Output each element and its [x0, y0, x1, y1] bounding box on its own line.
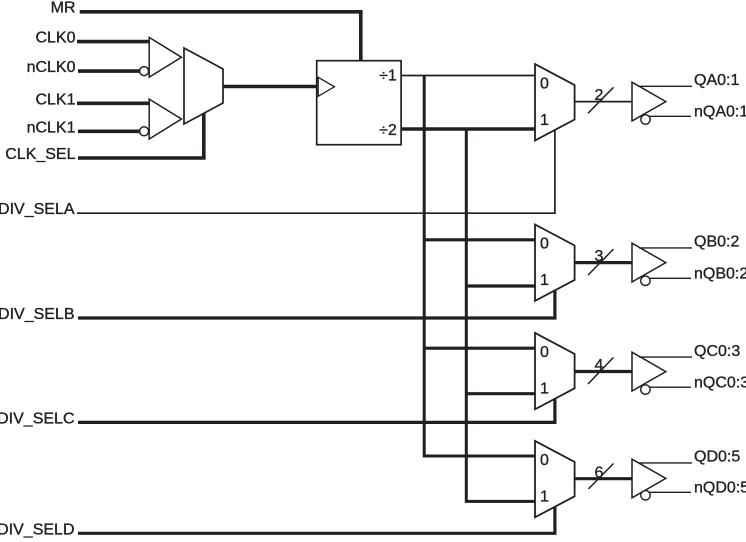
mux C	[535, 333, 575, 409]
input clock mux M0	[184, 48, 223, 124]
wire mux M0 output to divider	[223, 85, 317, 89]
svg-text:4: 4	[595, 357, 604, 374]
svg-text:0: 0	[540, 344, 549, 361]
svg-text:QB0:2: QB0:2	[694, 234, 739, 251]
wire CLK1	[77, 102, 149, 106]
inversion bubble buffer C	[641, 385, 650, 394]
svg-text:6: 6	[595, 464, 604, 481]
divider block U3	[317, 61, 401, 145]
svg-text:1: 1	[540, 112, 549, 129]
svg-text:÷1: ÷1	[379, 67, 397, 84]
wire vertical bus /2	[466, 129, 535, 501]
svg-text:QC0:3: QC0:3	[694, 343, 740, 360]
svg-text:CLK0: CLK0	[35, 30, 75, 47]
inversion bubble buffer D	[641, 491, 650, 500]
divider clock input triangle	[318, 77, 334, 96]
svg-text:nQB0:2: nQB0:2	[694, 266, 746, 283]
inversion bubble input buffer U1	[140, 67, 149, 76]
bus slash channel C	[588, 357, 614, 384]
mux D	[535, 441, 575, 517]
svg-text:2: 2	[595, 87, 604, 104]
wire DIV_SELA	[77, 212, 556, 214]
output buffer C triangle	[632, 352, 666, 391]
wire DIV_SELD	[78, 532, 557, 535]
svg-text:CLK_SEL: CLK_SEL	[5, 146, 75, 163]
wire nQA output	[649, 115, 691, 117]
wire bus /1 to mux C input 0	[424, 347, 535, 350]
svg-text:0: 0	[540, 75, 549, 92]
bus slash channel B	[588, 249, 614, 275]
svg-text:CLK1: CLK1	[35, 91, 75, 108]
svg-text:1: 1	[540, 381, 549, 398]
inversion bubble buffer B	[641, 276, 650, 285]
wire divider /1 output to mux A input 0	[401, 75, 535, 77]
wire mux C output to buffer C	[575, 370, 632, 373]
svg-text:DIV_SELC: DIV_SELC	[0, 410, 75, 427]
bus slash channel A	[588, 87, 614, 113]
mux B	[535, 225, 575, 301]
wire DIV_SELC	[78, 421, 557, 424]
wire CLK_SEL horizontal	[78, 156, 206, 160]
wire mux D select vertical	[553, 507, 556, 534]
mux A	[535, 64, 575, 140]
svg-text:QD0:5: QD0:5	[694, 449, 740, 466]
wire DIV_SELB	[78, 316, 557, 319]
wire nQB output	[649, 277, 691, 279]
wire mux A select vertical	[554, 130, 556, 213]
svg-text:DIV_SELA: DIV_SELA	[0, 201, 75, 218]
wire mux C select vertical	[553, 399, 556, 423]
wire CLK0	[77, 40, 149, 44]
inversion bubble input buffer U2	[140, 127, 149, 136]
bus slash channel D	[589, 464, 614, 489]
svg-text:nQD0:5: nQD0:5	[694, 480, 746, 497]
wire nQC output	[649, 386, 691, 388]
svg-text:1: 1	[540, 489, 549, 506]
svg-text:3: 3	[595, 248, 604, 265]
svg-text:DIV_SELB: DIV_SELB	[0, 306, 75, 323]
wire QA output	[639, 85, 692, 87]
wire nCLK1	[78, 130, 140, 134]
wire mux B select vertical	[553, 290, 556, 318]
svg-text:0: 0	[540, 452, 549, 469]
wire nCLK0	[78, 69, 140, 73]
svg-text:1: 1	[540, 272, 549, 289]
wire vertical bus /1	[424, 76, 535, 457]
svg-text:DIV_SELD: DIV_SELD	[0, 521, 75, 538]
input buffer U2 triangle CLK1/nCLK1	[149, 99, 181, 139]
wire nQD output	[649, 491, 691, 493]
wire mux D output to buffer D	[575, 477, 632, 480]
svg-text:÷2: ÷2	[379, 122, 397, 139]
wire MR horizontal	[80, 10, 363, 14]
wire divider /2 output to mux A input 1	[401, 127, 535, 130]
inversion bubble buffer A	[641, 115, 650, 124]
svg-text:nCLK1: nCLK1	[27, 119, 76, 136]
wire CLK_SEL vertical to mux M0	[202, 113, 206, 158]
wire QB output	[639, 247, 692, 249]
wire bus /2 to mux C input 1	[466, 392, 535, 395]
wire mux B output to buffer B	[575, 261, 632, 264]
wire MR vertical drop to divider	[359, 12, 363, 61]
svg-text:MR: MR	[51, 0, 76, 16]
svg-text:nQA0:1: nQA0:1	[694, 104, 746, 121]
output buffer A triangle	[632, 82, 666, 121]
svg-text:nQC0:3: nQC0:3	[694, 374, 746, 391]
wire mux A output to buffer A	[575, 101, 632, 103]
output buffer B triangle	[632, 243, 666, 282]
svg-text:nCLK0: nCLK0	[27, 59, 76, 76]
svg-text:QA0:1: QA0:1	[694, 72, 739, 89]
output buffer D triangle	[632, 459, 666, 498]
wire bus /1 to mux B input 0	[424, 238, 535, 241]
wire QD output	[639, 462, 692, 464]
wire QC output	[639, 356, 692, 358]
input buffer U1 triangle CLK0/nCLK0	[149, 37, 181, 77]
wire bus /2 to mux B input 1	[466, 284, 535, 287]
svg-text:0: 0	[540, 236, 549, 253]
